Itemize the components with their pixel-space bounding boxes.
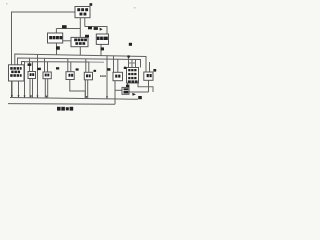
arrow mark right of box G [132,93,136,96]
wire box3 top pair [68,59,71,72]
wire box G left [115,89,122,91]
floating mark right area [129,43,132,46]
wire box E bottom corner [138,83,142,87]
wire L box bottom 1 [11,81,13,98]
text blobs box C row [97,37,100,40]
wire box F bottom [148,81,150,93]
wire segment above box E [129,62,136,64]
label on wire to box C part1 [88,27,92,30]
wire box4 bottom pair [85,80,87,99]
text blobs box B row1 [74,39,77,42]
label on wire to box C part2 [94,27,98,30]
text blobs box G row2 [124,91,129,93]
label right of box F [153,69,156,72]
wire box B down to bus [79,47,81,56]
wire bus C [22,62,90,98]
label between box3 and box4 [76,68,79,70]
wire box4 top pair [86,59,89,72]
wire box A down to bus [56,43,58,55]
arrowhead bottom wire x=46.5 [46,96,48,98]
wire drop to box A top [55,29,57,34]
faint speck top right [134,7,136,9]
box A (row2 left module) [48,33,63,43]
wire box2 top pair [45,58,48,72]
wire box F top 2 [149,62,151,72]
caption blob 1 [57,107,61,111]
label above box1 [28,63,32,66]
label above box B corner [85,35,89,38]
label before box D [107,68,110,71]
wire loop right of box E [142,87,154,92]
junction blob below box C [101,47,104,50]
text blobs box F [147,74,149,77]
text blobs box4 [86,74,88,77]
box T top (host computer) [75,7,90,18]
wire box D bottom to bus2 [114,81,116,105]
text blobs box2 [45,74,47,77]
caption blob 2 [61,107,65,111]
arrowhead bottom wire x=24.5 [24,95,26,97]
label between box2 and box3 [56,67,59,69]
text blobs box1 [30,73,32,76]
wire L box bottom 2 [18,81,20,98]
label after box4 [94,70,97,72]
wire box E top 1 [128,56,130,67]
wire box2 bottom pair [45,79,47,98]
box 2 (small module) [43,72,51,79]
wire bus A [15,54,146,72]
caption blob 3 [66,107,69,110]
wire bottom bus 2 [8,103,115,106]
wire pass-through x37.5 [37,54,39,97]
box 3 (small module) [66,72,74,80]
box B (row2 center module) [71,37,88,46]
box C (row2 right module) [96,34,108,44]
wire box3 bottom jog [70,80,86,99]
label on wire to box A [62,25,67,28]
wire box D top pair [114,56,118,73]
junction blob below box A [56,46,60,49]
wire bus C faint extension [89,61,104,63]
wire box1 bottom pair [30,79,33,98]
text blobs box E row1 [128,69,130,71]
text blobs box E row2 [128,73,130,75]
box L (left big module) [9,65,25,81]
wire box E top 2 [131,59,133,67]
wire box A to box B [63,40,71,42]
wire box1 top pair [30,58,33,71]
text blobs box E row4 [128,80,131,82]
arrowhead bottom wire x=12 [11,95,13,97]
caption blob 4 [70,107,74,111]
faint speck top left [6,3,8,5]
box E (right big module) [127,68,139,84]
text blobs box T row2 [80,13,83,16]
arrowhead bottom wire x=18.5 [18,95,20,97]
blob above box G [126,85,129,87]
arrowhead bottom wire x=86.5 [86,96,88,98]
wire pass-through x107 [106,55,108,99]
ellipsis dots [100,75,101,76]
box F (far right module) [144,72,153,80]
text blobs box T row1 [77,8,80,11]
wire horizontal to box C [85,27,107,34]
text blobs box G row1 [124,88,129,90]
text blobs box3 [69,74,71,77]
arrowhead bottom wire x=107 [106,96,108,98]
arrowhead on wire to box C [100,28,103,31]
text blobs box E row3 [128,77,130,79]
text blobs box D [115,75,117,78]
box 1 (small module) [28,72,36,79]
arrowhead bottom wire x=31 [30,95,32,97]
box G (small lower module) [122,87,129,94]
wire box E top 3 [135,59,137,67]
text blobs box L row3 [10,74,13,77]
wire outer border [12,12,76,98]
box 4 (small module) [84,72,92,80]
label between box1 and box2 [37,68,41,70]
wire bottom bus 1 [10,98,138,100]
text blobs box L row1 [10,67,13,70]
text blobs box L row2 [11,71,14,74]
speck above box T [90,3,93,6]
wire box G right to F bottom [129,91,149,93]
wire bus B [18,58,141,68]
arrowhead bottom wire x=37.5 [37,96,39,98]
wire horizontal to box A [56,28,80,30]
box D (right small module) [113,72,123,80]
text blobs box B row2 [75,42,78,45]
dark mark lower right [138,96,142,99]
wire box C down to bus [100,45,102,56]
text blobs box A row [49,36,52,39]
wire top box T down-left to box B [79,18,81,37]
wire box E to box G [127,83,129,87]
junction dot bus A near box E wire [127,55,129,57]
wire top box T down-right [84,18,86,27]
label left of box E [124,67,126,69]
